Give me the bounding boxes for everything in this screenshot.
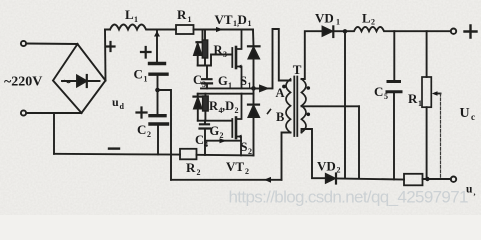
svg-text:1: 1 (248, 19, 252, 28)
top rail after R1 (194, 29, 254, 31)
svg-text:VD: VD (315, 11, 334, 26)
resistor R1 (176, 25, 194, 34)
transistor VT2 (MOSFET) (232, 94, 241, 156)
wire: bridge + output up to top rail (104, 30, 107, 81)
diode VD2 (326, 174, 404, 184)
wire C2 to bottom rail (157, 126, 159, 155)
label R2 (186, 160, 201, 177)
label C4 (195, 133, 208, 149)
label ud (112, 95, 125, 111)
label + (dc bus) (107, 42, 115, 51)
wire: midpoint S1 node to A (201, 87, 272, 89)
svg-text:,D: ,D (222, 99, 234, 113)
resistor R (output bottom) (404, 174, 423, 186)
node A label (276, 86, 285, 100)
label G2 (210, 124, 224, 140)
secondary polarity dot lower (307, 113, 311, 117)
wire after resistor to terminal (423, 178, 451, 180)
svg-text:2: 2 (245, 167, 249, 176)
label G1 (218, 74, 232, 90)
input terminal top (21, 41, 26, 46)
arrowhead on C1 stub (154, 31, 160, 37)
wire: secondary top to VD1 (302, 31, 323, 79)
svg-text:1: 1 (418, 99, 422, 108)
svg-text:~220V: ~220V (4, 75, 42, 90)
svg-text:R: R (209, 99, 219, 113)
label R1 (177, 7, 192, 24)
input terminal bottom (21, 110, 26, 115)
svg-text:R: R (186, 160, 196, 175)
label Uc (460, 106, 476, 122)
svg-text:S: S (241, 140, 248, 154)
wire: upper gate node (198, 55, 232, 66)
wire: center tap (302, 105, 360, 107)
label R1 (pot) (408, 91, 422, 108)
label VD1 (315, 11, 340, 27)
svg-text:2: 2 (248, 147, 252, 156)
svg-text:L: L (125, 7, 134, 22)
svg-text:VD: VD (317, 159, 336, 174)
arrow on S2 wire (220, 138, 227, 143)
svg-text:D: D (238, 12, 247, 27)
node B label (276, 110, 284, 124)
node S1/D1 junction (251, 86, 256, 91)
lower cell top wire (midpoint) (198, 93, 254, 95)
label C1 (134, 67, 148, 84)
output terminal + (451, 29, 456, 34)
wire: cap midpoint to B-node routing (158, 90, 172, 180)
svg-text:d: d (120, 102, 125, 111)
diode D1 (antiparallel upper) (248, 30, 260, 89)
wire: lower gate node (198, 120, 232, 122)
label R4,D2 (209, 99, 239, 115)
svg-text:2: 2 (337, 166, 341, 175)
wire: top terminal to bridge (26, 43, 77, 46)
bottom rail (negative) (54, 153, 180, 156)
wire: source S2 to C4 (205, 140, 241, 142)
svg-text:2: 2 (371, 18, 375, 27)
svg-text:G: G (210, 124, 220, 138)
svg-text:5: 5 (384, 92, 388, 101)
svg-text:C: C (193, 73, 202, 87)
label + (C1) (141, 47, 151, 58)
svg-text:U: U (460, 106, 470, 121)
svg-text:C: C (134, 67, 143, 82)
label u0 (466, 184, 476, 198)
wire: bottom terminal to bridge (26, 112, 81, 114)
svg-text:VT: VT (226, 159, 244, 174)
inductor L2 (345, 27, 451, 31)
node pot/rail junction (425, 177, 429, 181)
label minus (109, 147, 119, 149)
svg-text:u: u (112, 95, 119, 109)
resistor R4 (203, 94, 209, 121)
wire: bridge - output down to bottom rail (53, 113, 55, 154)
svg-text:c: c (471, 112, 475, 122)
bottom rail right of R2 (197, 154, 254, 157)
svg-text:C: C (137, 122, 146, 137)
diode D3 (upper gate) (194, 30, 207, 66)
transistor VT1 (MOSFET) (232, 30, 241, 89)
label + output (465, 26, 477, 38)
node VD1/L2 junction (343, 29, 347, 33)
potentiometer R (output) (422, 31, 431, 178)
arrow on B wire (left) (264, 177, 271, 183)
resistor R3 (202, 30, 207, 66)
label R3 (214, 43, 228, 59)
output terminal bottom (451, 177, 456, 182)
svg-text:C: C (195, 133, 204, 147)
node (C1/C2 midpoint) (155, 88, 160, 93)
svg-text:2: 2 (235, 106, 239, 115)
svg-text:,: , (474, 188, 476, 197)
svg-text:S: S (240, 74, 247, 88)
primary polarity dot (282, 85, 286, 89)
capacitor C4 (200, 121, 211, 155)
svg-text:2: 2 (147, 130, 151, 139)
svg-text:B: B (276, 110, 284, 124)
wire: bottom B wire (171, 179, 282, 181)
svg-text:2: 2 (197, 168, 201, 177)
transformer secondary winding (302, 79, 307, 133)
secondary polarity dot upper (307, 86, 311, 90)
transformer T core (294, 77, 297, 137)
transformer primary winding (286, 79, 291, 133)
svg-text:R: R (177, 7, 187, 22)
tick mark (268, 110, 271, 114)
wire: staple routing to primary top (273, 29, 291, 88)
wire: secondary bottom to VD2 (302, 129, 326, 178)
label VT1,D1 (215, 12, 252, 28)
capacitor C3 (202, 66, 212, 89)
wire: B wire up to primary bottom (282, 133, 291, 180)
svg-text:1: 1 (134, 15, 138, 24)
arrow to A (256, 86, 267, 91)
label L2 (362, 11, 375, 27)
wire node down to C2 (157, 91, 159, 114)
label S2 (241, 140, 253, 156)
label VD2 (317, 159, 341, 175)
label S1 (240, 74, 252, 90)
label C2 (137, 122, 151, 139)
diode D4 (lower gate) (194, 94, 203, 121)
svg-text:1: 1 (144, 75, 148, 84)
label C3 (193, 73, 206, 89)
label + (C2) (137, 108, 147, 118)
svg-text:VT: VT (215, 12, 233, 27)
capacitor C1 stub from rail (156, 30, 158, 63)
bridge rectifier (53, 44, 106, 113)
svg-text:T: T (293, 62, 302, 77)
capacitor C5 (387, 31, 401, 179)
svg-text:https://blog.csdn.net/qq_42597: https://blog.csdn.net/qq_42597971 (229, 188, 469, 207)
label L1 (125, 7, 138, 24)
capacitor C1 (150, 64, 168, 75)
resistor R2 (180, 149, 197, 160)
label C5 (374, 84, 388, 101)
label VT2 (226, 159, 249, 176)
inductor L1 (105, 25, 176, 30)
bridge inner diode (62, 75, 100, 87)
diode VD1 (323, 26, 346, 37)
svg-text:C: C (374, 84, 383, 99)
capacitor C2 (150, 116, 168, 124)
arrow on top rail (216, 27, 223, 32)
pot wiper arrow (432, 91, 441, 179)
wire C1 to node (157, 76, 159, 90)
svg-text:R: R (408, 91, 418, 106)
svg-text:1: 1 (188, 15, 192, 24)
svg-text:L: L (362, 11, 371, 26)
wire: VD1 junction down (344, 31, 346, 178)
svg-text:u: u (466, 184, 473, 196)
diode D2 (antiparallel lower) (248, 88, 259, 155)
svg-text:1: 1 (336, 18, 340, 27)
wire: center tap jog down (358, 106, 360, 178)
label T (293, 62, 302, 77)
svg-text:G: G (218, 74, 228, 88)
